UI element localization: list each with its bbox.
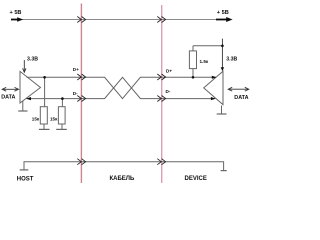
svg-text:D-: D- [73,91,78,96]
svg-text:D+: D+ [73,67,79,72]
svg-text:15к: 15к [50,117,58,122]
svg-text:DEVICE: DEVICE [185,176,207,182]
svg-text:КАБЕЛЬ: КАБЕЛЬ [110,176,136,182]
svg-text:HOST: HOST [17,176,34,182]
svg-text:D-: D- [166,89,171,94]
svg-text:3.3В: 3.3В [226,57,237,63]
svg-text:DATA: DATA [234,95,248,101]
svg-text:+ 5В: + 5В [10,10,22,16]
svg-text:+ 5В: + 5В [217,10,229,16]
svg-text:3.3В: 3.3В [27,57,38,63]
svg-text:1.5к: 1.5к [200,59,209,64]
svg-text:DATA: DATA [1,94,15,100]
svg-text:15к: 15к [32,117,40,122]
svg-text:D+: D+ [166,69,172,74]
